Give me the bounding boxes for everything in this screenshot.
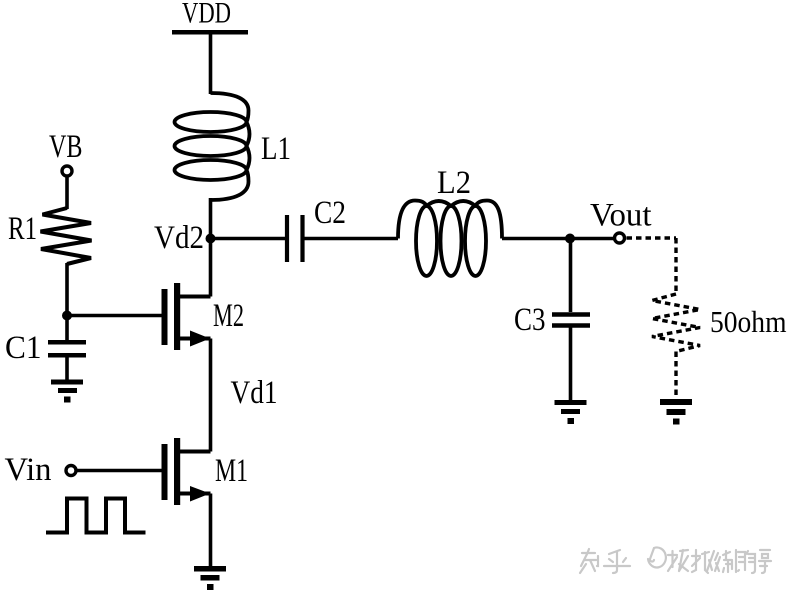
ground (M1) [194, 566, 226, 590]
ground (C3) [555, 400, 587, 424]
wire VDD to L1 [209, 32, 213, 94]
dashed wire Vout to load [627, 238, 677, 295]
svg-text:50ohm: 50ohm [710, 304, 787, 339]
M1 drain tap [180, 450, 211, 454]
capacitor C2 [287, 215, 303, 262]
svg-text:VB: VB [49, 129, 83, 165]
gate node junction dot [62, 311, 72, 321]
wire node to C1 [65, 316, 69, 341]
svg-text:M2: M2 [213, 298, 244, 334]
terminal Vin [66, 466, 76, 476]
M2 source tap [180, 337, 211, 341]
VDD supply bar [172, 30, 248, 35]
square wave source symbol [46, 499, 146, 533]
watermark 知乎 @攻城狮鹏哥 [580, 547, 771, 573]
capacitor C3 branch wire [569, 239, 573, 313]
svg-text:C2: C2 [314, 195, 346, 231]
svg-text:Vd2: Vd2 [154, 220, 204, 256]
inductor L1 [175, 93, 250, 200]
transistor M2 [162, 283, 211, 350]
svg-text:Vin: Vin [5, 452, 52, 488]
svg-text:C1: C1 [5, 330, 42, 366]
node Vd2 junction dot [206, 234, 216, 244]
resistor 50ohm (dashed) [652, 294, 700, 352]
svg-text:Vout: Vout [590, 198, 652, 234]
capacitor C3 [552, 315, 590, 326]
terminal Vout [615, 233, 625, 243]
svg-text:C3: C3 [514, 302, 546, 338]
dashed wire load to ground [674, 352, 677, 400]
resistor R1 [41, 208, 92, 264]
ground (load) [660, 399, 692, 425]
wire node to M2 gate [67, 314, 162, 318]
wire Vd2 to C2 [211, 237, 286, 241]
ground (C1) [51, 380, 83, 403]
svg-text:R1: R1 [8, 211, 37, 247]
inductor L2 [398, 201, 502, 277]
wire L1 to node Vd2 [209, 198, 213, 239]
wire Vin to M1 gate [77, 469, 162, 473]
svg-text:M1: M1 [215, 453, 248, 489]
wire R1 to gate node [65, 263, 69, 316]
wire M2 drain to Vd2 [209, 239, 213, 297]
terminal VB [62, 166, 72, 176]
svg-text:L1: L1 [261, 131, 291, 167]
svg-text:Vd1: Vd1 [231, 375, 278, 411]
wire C3 to ground [569, 326, 573, 401]
transistor M1 [162, 438, 211, 505]
output node junction dot [565, 234, 575, 244]
wire C1 to ground [65, 355, 69, 380]
capacitor C1 [48, 342, 86, 355]
M1 source tap [180, 492, 211, 496]
svg-text:L2: L2 [437, 165, 471, 201]
wire M1 source to ground [209, 494, 213, 567]
wire M2 source to M1 drain (node Vd1) [209, 339, 213, 452]
wire C2 to L2 [303, 237, 399, 241]
M2 drain tap [180, 295, 211, 299]
wire VB to R1 [65, 176, 69, 209]
svg-text:VDD: VDD [182, 0, 231, 30]
wire L2 to Vout [502, 237, 614, 241]
